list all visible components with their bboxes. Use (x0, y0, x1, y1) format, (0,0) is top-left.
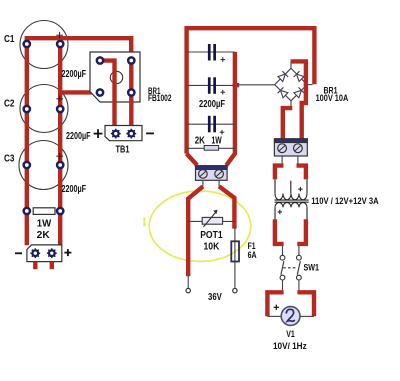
middle capacitor bank box wire (187, 28, 315, 153)
wire (187, 276, 189, 288)
wire (275, 219, 284, 244)
wire (282, 246, 284, 256)
svg-text:C3: C3 (4, 154, 15, 165)
svg-text:2200µF: 2200µF (66, 131, 91, 142)
wire (226, 52, 235, 165)
node line cap3 (187, 123, 235, 125)
wire (238, 84, 275, 86)
wire (219, 186, 234, 228)
svg-text:C2: C2 (4, 99, 15, 110)
minus sign TB1 (146, 132, 154, 134)
svg-text:2K: 2K (37, 230, 51, 241)
meter V1 (281, 307, 300, 326)
svg-text:6A: 6A (248, 250, 257, 260)
pad C3 right (56, 161, 65, 170)
svg-text:2200µF: 2200µF (62, 184, 87, 195)
wire (33, 262, 37, 270)
svg-text:10K: 10K (204, 241, 220, 252)
pad TB1 pin2 (126, 129, 136, 139)
wire (290, 61, 292, 68)
svg-text:V1: V1 (286, 329, 295, 339)
svg-text:1W: 1W (212, 135, 223, 146)
wire (297, 219, 306, 244)
svg-text:2200µF: 2200µF (62, 69, 87, 80)
polarity mark cap2 (221, 90, 226, 95)
pad TB1 pin1 (111, 129, 121, 139)
pad R1 right (56, 207, 65, 216)
node line resistor (187, 147, 235, 149)
wire (281, 156, 283, 164)
pad output block pin2 (47, 248, 57, 258)
polarity mark C3 (56, 153, 63, 160)
wire (233, 83, 240, 87)
capacitor C3 (19, 141, 68, 190)
pad BR1 pin2 (127, 56, 136, 65)
pad BR1 pin4 (127, 88, 136, 97)
plus sign meter (274, 305, 279, 310)
resistor middle (204, 146, 218, 151)
capacitor C2 (20, 85, 68, 133)
yellow caret mark (143, 218, 145, 227)
terminal node 36V left (186, 288, 190, 292)
wire (50, 262, 54, 270)
wire (297, 166, 306, 180)
polarity mark transformer bottom (278, 210, 282, 214)
capacitor symbol 2 (208, 77, 216, 94)
wire (100, 61, 115, 134)
wire (188, 186, 203, 276)
polarity mark C1 (56, 32, 63, 39)
pad C3 left (22, 161, 31, 170)
svg-text:2200µF: 2200µF (199, 99, 225, 110)
plus sign TB1 (94, 129, 103, 138)
wire (267, 292, 283, 316)
wire (202, 180, 204, 186)
wire (282, 280, 284, 290)
pad C2 left (22, 105, 31, 114)
bridge rectifier BR1 diamond (275, 68, 307, 101)
pad C1 right (56, 40, 65, 49)
wire (298, 246, 300, 256)
terminal node 36V right (233, 288, 237, 292)
pad BR1 pin3 (96, 88, 105, 97)
svg-text:2K: 2K (195, 135, 206, 146)
resistor R1 2K 1W (33, 208, 55, 215)
yellow highlight ellipse (149, 191, 251, 261)
minus sign output block (15, 252, 22, 254)
polarity mark transformer top (298, 187, 302, 191)
svg-text:36V: 36V (208, 292, 222, 303)
pad C2 right (56, 105, 65, 114)
wire (58, 38, 62, 245)
potentiometer POT1 (202, 210, 222, 227)
wire (283, 108, 293, 139)
diode D3 bottom-left (278, 87, 289, 98)
capacitor symbol 3 (208, 116, 216, 133)
pad output block pin1 (30, 248, 40, 258)
wire (300, 315, 314, 317)
node line cap1 (187, 51, 235, 53)
pad R1 left (22, 207, 31, 216)
pad BR1 pin1 (96, 56, 105, 65)
svg-text:TB1: TB1 (116, 145, 130, 156)
svg-text:POT1: POT1 (200, 230, 223, 241)
potentiometer line (188, 220, 235, 222)
wire (298, 280, 300, 290)
switch SW1 (280, 255, 301, 280)
diode D4 bottom-right (294, 87, 305, 98)
svg-text:110V / 12V+12V 3A: 110V / 12V+12V 3A (311, 196, 379, 206)
wire (234, 228, 236, 288)
wire (267, 315, 281, 317)
svg-text:100V 10A: 100V 10A (316, 93, 349, 103)
svg-text:1W: 1W (37, 219, 52, 230)
polarity mark cap1 (221, 57, 226, 62)
transformer T1 (275, 179, 309, 219)
wire (297, 156, 299, 164)
plus sign output block (64, 249, 71, 256)
wire (129, 61, 133, 134)
wire (25, 38, 132, 60)
bridge rectifier BR1 package (90, 52, 140, 102)
svg-text:FB1002: FB1002 (148, 93, 172, 103)
terminal block output left (27, 245, 62, 262)
wire (187, 154, 198, 166)
wire (297, 292, 314, 316)
fuse F1 (231, 241, 239, 261)
node line cap2 (187, 84, 235, 86)
wire (60, 90, 100, 94)
diode D2 top-right (294, 71, 305, 82)
svg-text:C1: C1 (4, 34, 15, 45)
svg-text:10V/ 1Hz: 10V/ 1Hz (273, 341, 307, 351)
wire (218, 180, 220, 186)
terminal block TB1 (105, 126, 142, 141)
wire (275, 166, 284, 180)
terminal block middle (196, 166, 228, 181)
wire (25, 38, 29, 245)
terminal block right (274, 139, 307, 156)
capacitor C1 (20, 21, 68, 69)
diode D1 top-left (277, 71, 288, 82)
capacitor symbol 1 (208, 44, 216, 61)
wire (291, 61, 306, 138)
polarity mark cap3 (220, 130, 225, 135)
wire (290, 101, 292, 106)
pad C1 left (22, 40, 31, 49)
svg-text:SW1: SW1 (304, 262, 320, 272)
wire (307, 84, 313, 86)
polarity mark C2 (56, 96, 63, 103)
